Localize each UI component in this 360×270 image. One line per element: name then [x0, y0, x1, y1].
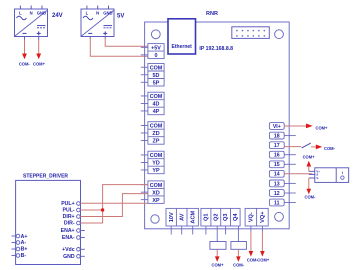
svg-text:COM+: COM+ [316, 126, 329, 131]
bottom terminal row boxes [166, 208, 268, 226]
bottom terminal labels (rotated) [169, 210, 266, 223]
svg-text:STEPPER_DRIVER: STEPPER_DRIVER [23, 173, 68, 179]
arrowhead VQ+ COM+ [260, 251, 265, 257]
svg-text:COM: COM [150, 124, 163, 130]
left terminal stubs [141, 47, 148, 199]
svg-text:DIR-: DIR- [64, 221, 75, 227]
arrowhead COM+ [36, 54, 41, 60]
svg-text:GND: GND [63, 254, 75, 260]
svg-text:COM+: COM+ [257, 257, 270, 262]
wire terminal 17 to switch [284, 146, 301, 148]
svg-text:ZP: ZP [153, 139, 160, 145]
svg-text:14: 14 [274, 172, 280, 178]
wire PUL- to junction [81, 209, 103, 211]
svg-text:Q4: Q4 [233, 213, 239, 221]
svg-text:RNR: RNR [206, 11, 218, 17]
svg-text:ZD: ZD [152, 131, 159, 137]
svg-text:0: 0 [155, 53, 158, 59]
svg-text:YP: YP [152, 168, 160, 174]
bottom terminal stubs [171, 226, 225, 235]
PS2 terminal labels L N GND [86, 11, 113, 16]
svg-text:A-: A- [21, 240, 27, 246]
U2 left pins circles [12, 234, 20, 257]
svg-text:+Vdc: +Vdc [62, 247, 75, 253]
load RL1 [210, 242, 226, 250]
svg-text:24V: 24V [52, 13, 63, 19]
svg-text:L: L [19, 11, 22, 16]
wire DIR+ to XD [81, 194, 148, 217]
DB connector J3 [232, 27, 269, 39]
right terminal stubs [284, 136, 296, 203]
svg-text:VQ-: VQ- [249, 212, 255, 222]
svg-text:13: 13 [274, 181, 280, 187]
arrowhead sensor COM- down [307, 189, 312, 194]
arrowhead RL1 COM+ [215, 256, 220, 262]
power supply PS1 24V [15, 6, 48, 40]
svg-text:COM+: COM+ [33, 61, 46, 66]
load RL2 [231, 242, 247, 250]
mounting hole top-left [151, 30, 160, 39]
svg-text:COM: COM [150, 94, 163, 100]
svg-text:5V: 5V [117, 13, 124, 19]
arrowhead switch COM- [316, 145, 322, 150]
left terminal column boxes [148, 44, 164, 204]
mounting hole bottom-right [275, 212, 284, 221]
wire sensor V+ to COM+ [308, 166, 310, 171]
arrowhead sensor COM+ up [307, 161, 312, 167]
svg-text:+5V: +5V [151, 46, 161, 52]
svg-text:VI+: VI+ [273, 124, 281, 130]
right terminal column boxes [269, 123, 284, 206]
U2 left pin labels [21, 234, 28, 259]
wire switch to COM- arrow [311, 146, 316, 148]
wire DIR- to COM [81, 185, 148, 223]
PS1 terminal labels L N GND [19, 11, 46, 16]
svg-text:COM: COM [150, 153, 163, 159]
wire sensor V- to COM- [308, 178, 310, 189]
svg-text:AV: AV [179, 213, 185, 221]
svg-text:Q1: Q1 [204, 213, 210, 220]
svg-text:Q3: Q3 [223, 213, 229, 220]
wire terminal 14 to sensor signal [284, 173, 312, 175]
svg-text:B-: B- [21, 253, 27, 259]
wire VQ+ to COM+ [261, 226, 263, 232]
svg-text:COM+: COM+ [212, 263, 225, 268]
svg-text:PUL-: PUL- [62, 208, 74, 214]
svg-text:N: N [30, 11, 33, 16]
power supply PS2 5V [81, 6, 114, 39]
wire PS1 minus to COM- [24, 40, 26, 54]
svg-text:DIR+: DIR+ [63, 214, 75, 220]
svg-text:COM: COM [150, 66, 163, 72]
arrowhead RL2 COM- [236, 256, 241, 262]
sensor B1 body [309, 168, 349, 183]
arrowhead COM- [22, 54, 27, 60]
wire PS2 minus to 0 terminal [90, 38, 148, 56]
svg-text:16: 16 [274, 153, 280, 159]
wire PUL+ to XP [81, 202, 148, 204]
svg-text:COM+: COM+ [303, 155, 316, 160]
svg-text:18: 18 [274, 134, 280, 140]
svg-text:ENA-: ENA- [62, 235, 75, 241]
svg-text:L: L [86, 11, 89, 16]
wire RL2 to COM- [237, 249, 239, 256]
svg-text:XP: XP [152, 198, 160, 204]
svg-text:V-: V- [316, 176, 319, 180]
mounting hole top-right [275, 30, 284, 39]
svg-text:5P: 5P [153, 81, 160, 87]
left terminal labels [150, 46, 163, 204]
svg-text:GND: GND [37, 11, 46, 16]
wire VI+ to COM+ [284, 125, 306, 127]
wire VQ- to COM- [250, 226, 252, 232]
junction dot PUL-/DIR- [101, 208, 104, 211]
svg-text:ACM: ACM [190, 210, 196, 223]
svg-text:Ethernet: Ethernet [172, 44, 193, 50]
U2 right pin labels [61, 201, 75, 260]
svg-text:I: I [342, 171, 343, 175]
switch S1 blade [302, 143, 311, 148]
svg-text:Q2: Q2 [213, 213, 219, 220]
svg-text:15: 15 [274, 162, 280, 168]
svg-text:B+: B+ [21, 247, 28, 253]
right terminal labels [273, 124, 281, 206]
svg-text:N: N [96, 11, 99, 16]
stepper driver U2 body [16, 180, 81, 264]
svg-text:COM-: COM- [233, 263, 245, 268]
svg-text:GND: GND [103, 11, 112, 16]
wire RL1 to COM+ [216, 249, 218, 256]
wire Q4 to load RL2 [237, 226, 239, 242]
J3 pin dots [236, 30, 265, 37]
svg-text:ENA+: ENA+ [61, 228, 75, 234]
mounting hole bottom-left [151, 215, 159, 223]
svg-text:4D: 4D [153, 102, 160, 108]
svg-text:PUL+: PUL+ [61, 201, 74, 207]
svg-text:COM: COM [150, 183, 163, 189]
svg-text:11: 11 [274, 200, 280, 206]
svg-text:COM-: COM- [324, 146, 336, 151]
wire Q2 to load RL1 [216, 226, 218, 242]
wire PS1 plus to COM+ [38, 40, 40, 54]
svg-text:COM-: COM- [305, 195, 317, 200]
U2 right pins circles [77, 202, 85, 258]
ethernet connector J2 [168, 19, 196, 54]
controller board U1 RNR outline [145, 22, 290, 229]
svg-text:IP 192.168.8.8: IP 192.168.8.8 [199, 46, 233, 52]
svg-text:YD: YD [152, 161, 160, 167]
sensor pin labels [316, 169, 320, 180]
wire PS2 plus to +5V terminal [105, 38, 148, 46]
arrowhead VQ- COM- [249, 251, 254, 257]
svg-text:17: 17 [274, 143, 280, 149]
arrowhead VI+ COM+ [306, 124, 313, 129]
svg-text:10V: 10V [169, 212, 175, 222]
svg-text:COM-: COM- [19, 61, 31, 66]
svg-text:4P: 4P [153, 109, 160, 115]
svg-text:12: 12 [274, 191, 280, 197]
svg-text:5D: 5D [153, 73, 160, 79]
svg-text:XD: XD [152, 190, 160, 196]
svg-text:A+: A+ [21, 234, 28, 240]
svg-text:VQ+: VQ+ [260, 211, 266, 223]
